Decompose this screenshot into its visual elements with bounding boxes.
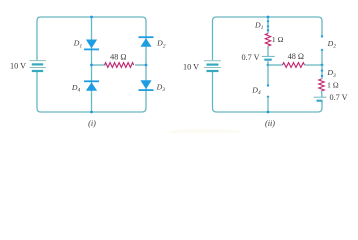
wire outer loop bottom (i): [37, 72, 146, 113]
svg-text:1 Ω: 1 Ω: [327, 81, 339, 90]
node middle junction right (ii): [321, 64, 324, 67]
node bottom of branch (i): [90, 111, 93, 114]
diode D1 (i): [84, 40, 99, 50]
svg-text:0.7 V: 0.7 V: [241, 53, 259, 62]
diode D3 (i): [139, 80, 154, 90]
svg-text:10 V: 10 V: [183, 63, 199, 72]
node middle right (i): [145, 64, 148, 67]
wire D4 lower segment (ii): [267, 97, 269, 112]
svg-text:1 Ω: 1 Ω: [272, 35, 284, 44]
node D2 bottom dot (ii): [321, 49, 323, 51]
diode D4 (i): [84, 81, 99, 91]
svg-text:D2: D2: [156, 39, 166, 50]
svg-text:D3: D3: [156, 82, 166, 93]
wire battery to bottom corner (ii): [321, 101, 323, 103]
wire outer loop (i): [37, 17, 146, 60]
node D4 top dot (ii): [267, 84, 269, 86]
svg-text:48 Ω: 48 Ω: [288, 52, 304, 61]
node D1 cathode dot (ii): [267, 25, 269, 27]
wire middle junction to D3 (ii): [321, 65, 323, 79]
wire branch D1-D4 (i): [91, 17, 93, 112]
wire resistor to battery (ii): [267, 46, 269, 56]
node branch bottom junction (ii): [267, 111, 270, 114]
node D2 top dot (ii): [321, 35, 323, 37]
wire middle right segment (ii): [305, 64, 323, 66]
resistor 48ohm (i): [105, 63, 134, 68]
node D3 top dot (ii): [321, 69, 323, 71]
battery 0.7V on D3 branch (ii): [314, 97, 327, 101]
battery 10V (ii): [204, 61, 221, 71]
node resistor top dot (ii): [267, 29, 269, 31]
resistor 48ohm (ii): [283, 63, 305, 68]
wire D2 to middle junction (ii): [321, 50, 323, 65]
wire D4 upper segment (ii): [267, 65, 269, 86]
svg-text:10 V: 10 V: [10, 62, 26, 71]
svg-text:D1: D1: [254, 20, 264, 31]
wire outer top loop (ii): [213, 17, 323, 60]
faint scan smudge: [169, 129, 241, 136]
node D1 anode dot (ii): [267, 20, 269, 22]
wire battery to middle node (ii): [267, 60, 269, 65]
wire middle left segment (ii): [268, 64, 283, 66]
svg-text:D1: D1: [73, 39, 83, 50]
resistor 1ohm on D3 branch (ii): [319, 79, 324, 91]
svg-text:D3: D3: [326, 68, 336, 79]
wire branch D1 top (ii): [267, 17, 269, 34]
wire middle left (i): [92, 64, 106, 66]
svg-text:(i): (i): [88, 119, 96, 128]
svg-text:0.7 V: 0.7 V: [330, 93, 348, 102]
node middle junction left (ii): [267, 64, 270, 67]
svg-text:D4: D4: [251, 86, 261, 97]
wire right branch middle (i): [145, 33, 147, 95]
diode D2 (i): [139, 37, 154, 47]
svg-text:(ii): (ii): [265, 119, 275, 128]
node D4 bottom dot (ii): [267, 96, 269, 98]
node D3 bottom dot (ii): [321, 75, 323, 77]
node branch top junction (ii): [267, 16, 270, 19]
wire outer bottom loop (ii): [213, 72, 323, 113]
node middle left (i): [90, 64, 93, 67]
wire resistor to battery on D3 branch (ii): [321, 91, 324, 97]
svg-text:48 Ω: 48 Ω: [110, 52, 126, 61]
battery 0.7V on D1 branch (ii): [262, 56, 275, 59]
node top of branch (i): [90, 16, 93, 19]
svg-text:D2: D2: [327, 39, 337, 50]
wire middle right (i): [135, 64, 146, 66]
svg-text:D4: D4: [71, 83, 81, 94]
battery 10V (i): [30, 61, 47, 71]
resistor 1ohm on D1 branch (ii): [265, 34, 270, 47]
